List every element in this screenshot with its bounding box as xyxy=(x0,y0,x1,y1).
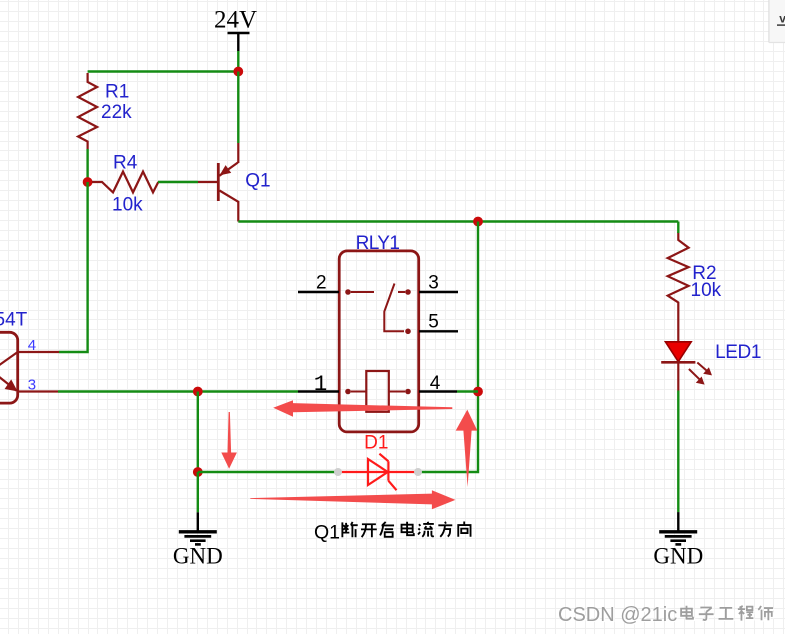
annotation arrow: big right arrow xyxy=(250,490,455,509)
node: relay pin4 junction xyxy=(473,387,483,397)
node: diode row left junction xyxy=(193,467,203,477)
wire: R4 to Q1 base xyxy=(158,181,198,183)
relay switch contact xyxy=(345,284,411,335)
relay pin 1 xyxy=(298,371,339,397)
wire: diode row left green xyxy=(198,471,336,473)
svg-text:GND: GND xyxy=(653,544,703,569)
svg-text:Q1: Q1 xyxy=(314,522,340,544)
resistor R2 10k xyxy=(668,232,722,342)
wire: main horizontal rail from Q1 collector xyxy=(238,220,678,222)
svg-text:10k: 10k xyxy=(112,194,143,215)
node: selection handle left xyxy=(334,468,342,476)
wire: vertical branch to relay pin4 and diode row xyxy=(420,222,478,473)
relay pin 2 xyxy=(298,272,339,293)
node: selection handle right xyxy=(414,468,422,476)
optocoupler 54T body xyxy=(0,310,28,403)
svg-text:R4: R4 xyxy=(113,152,138,173)
svg-text:Q1: Q1 xyxy=(245,170,270,191)
node: R1/R4 junction xyxy=(83,177,93,187)
svg-text:D1: D1 xyxy=(364,433,388,454)
wire: LED to right gnd xyxy=(677,391,679,513)
svg-text:4: 4 xyxy=(430,373,441,394)
svg-text:CSDN @21ic: CSDN @21ic xyxy=(558,604,677,626)
ground GND left xyxy=(173,512,223,568)
ground GND right xyxy=(653,512,703,569)
svg-text:RLY1: RLY1 xyxy=(356,233,400,254)
annotation arrow: small down arrow xyxy=(221,412,237,469)
wire: vertical down to opto pin4 xyxy=(59,182,88,352)
node: pin3 wire / gnd branch junction xyxy=(193,387,203,397)
relay pin 5 xyxy=(419,312,458,333)
svg-text:5: 5 xyxy=(428,312,439,333)
svg-text:54T: 54T xyxy=(0,310,28,331)
svg-text:4: 4 xyxy=(28,337,36,354)
relay coil xyxy=(345,371,411,412)
relay pin 3 xyxy=(419,272,458,293)
wire: left gnd stem green xyxy=(197,472,199,512)
svg-text:R1: R1 xyxy=(105,82,129,103)
wire: rail corner down to R2 xyxy=(677,222,679,234)
diode D1 xyxy=(364,433,396,491)
svg-text:1: 1 xyxy=(314,371,328,397)
wire: 24V stem xyxy=(237,51,239,72)
svg-text:22k: 22k xyxy=(101,102,132,123)
svg-text:v: v xyxy=(779,11,785,25)
svg-text:24V: 24V xyxy=(214,7,257,34)
relay RLY1 body xyxy=(339,233,419,432)
annotation text: Q1 current direction note xyxy=(314,522,471,544)
relay pin 4 xyxy=(419,373,457,394)
power 24V xyxy=(214,7,257,51)
resistor R4 10k xyxy=(92,152,158,215)
resistor R1 22k xyxy=(78,73,132,149)
LED LED1 xyxy=(661,342,761,391)
wire: down to diode row xyxy=(197,392,199,473)
watermark xyxy=(558,604,774,627)
annotation arrow: big left arrow xyxy=(273,400,452,417)
svg-text:10k: 10k xyxy=(691,280,722,301)
svg-text:3: 3 xyxy=(428,272,439,293)
node: 24V junction xyxy=(233,67,243,77)
transistor Q1 xyxy=(198,143,271,222)
annotation arrow: small up arrow xyxy=(456,410,478,487)
wire: opto pin3 to relay pin1 xyxy=(58,390,298,392)
svg-text:3: 3 xyxy=(28,376,36,393)
wire: relay pin4 to branch xyxy=(457,390,478,392)
node: rail/relay branch junction xyxy=(473,217,483,227)
optocoupler pin 4 xyxy=(18,337,59,354)
svg-text:2: 2 xyxy=(316,272,327,293)
wire: Q1 emitter up to 24V node xyxy=(237,72,239,144)
svg-text:LED1: LED1 xyxy=(715,342,761,363)
wire: top rail from R1 to 24V node xyxy=(88,70,239,72)
wire: selected red wire through D1 xyxy=(338,471,418,473)
wire: R1 bottom to node xyxy=(86,149,88,182)
svg-text:GND: GND xyxy=(173,544,223,569)
optocoupler pin 3 xyxy=(18,376,58,393)
ui overlay panel top right xyxy=(769,0,785,43)
